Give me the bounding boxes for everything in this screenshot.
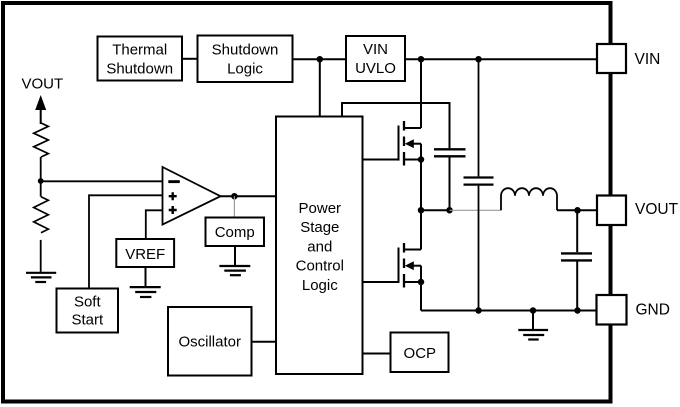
ground: power stage [518, 330, 548, 340]
ground: Comp [219, 266, 250, 275]
pin: VOUT [597, 196, 626, 226]
ground: feedback divider [26, 273, 56, 282]
wire: VIN junction down to input cap [478, 59, 480, 176]
wire: VIN UVLO to VIN pin [405, 58, 597, 60]
wire: soft start to op-amp + input [89, 195, 163, 288]
wire: Shutdown Logic output to VIN UVLO [293, 58, 347, 60]
svg-text:Logic: Logic [302, 277, 338, 294]
svg-text:Logic: Logic [227, 60, 263, 77]
box: OCP [391, 333, 449, 373]
wire: feedback node to op-amp inverting input [41, 180, 163, 182]
node: ground symbol junction [530, 307, 537, 314]
box: Shutdown Logic [198, 36, 293, 83]
svg-text:Start: Start [71, 311, 104, 328]
node: input cap ground junction [475, 307, 482, 314]
svg-text:UVLO: UVLO [355, 60, 396, 77]
box: Oscillator [168, 307, 252, 376]
wire: op-amp output to Power Stage [221, 195, 277, 197]
box: VREF [116, 239, 174, 267]
svg-text:VREF: VREF [125, 246, 165, 263]
box: Comp [206, 218, 265, 247]
node: shutdown/powerstage junction [317, 56, 324, 63]
arrow up to VOUT [35, 95, 46, 110]
wire: switch node horizontal [421, 209, 450, 211]
wire: bootstrap from Power Stage top [342, 103, 450, 148]
pin: VIN [597, 44, 626, 73]
resistor R2 (lower feedback) [34, 197, 49, 233]
node: output cap ground junction [574, 307, 581, 314]
svg-text:VOUT: VOUT [22, 76, 64, 93]
wire: inductor to VOUT pin [557, 209, 597, 211]
wire: VREF to op-amp + input [146, 210, 163, 239]
svg-text:Shutdown: Shutdown [106, 60, 173, 77]
svg-text:Soft: Soft [74, 293, 102, 310]
svg-text:OCP: OCP [404, 345, 437, 362]
wire: Power Stage to OCP [363, 353, 392, 355]
pin: GND [597, 295, 627, 325]
wire: rail to power ground [532, 311, 534, 330]
wire: Oscillator to Power Stage [252, 341, 277, 343]
wire: junction down to Power Stage top [319, 59, 321, 116]
box: Thermal Shutdown [98, 37, 183, 81]
capacitor: bootstrap [434, 149, 466, 156]
node: VOUT/output-cap junction [574, 207, 581, 214]
svg-text:Power: Power [299, 200, 342, 217]
svg-text:Stage: Stage [300, 219, 339, 236]
wire: R1 to feedback node [40, 157, 42, 197]
svg-text:VIN: VIN [635, 51, 661, 68]
wire: VREF to ground [145, 267, 147, 287]
svg-text:Comp: Comp [215, 224, 255, 241]
svg-text:Oscillator: Oscillator [178, 334, 241, 351]
resistor R1 (upper feedback) [34, 123, 49, 157]
svg-text:VOUT: VOUT [635, 201, 679, 218]
wire: bootstrap cap to switch node [449, 157, 451, 210]
wire: junction down to Comp (thin) [233, 196, 235, 217]
wire: ground rail [421, 310, 597, 312]
capacitor: input [464, 178, 494, 185]
node: VIN/drain junction [418, 56, 425, 63]
node: switch/bootstrap junction [446, 207, 453, 214]
transistor: high-side MOSFET [363, 121, 424, 166]
transistor: low-side MOSFET [363, 243, 424, 288]
wire: high-side source to low-side drain (switch node) [420, 160, 422, 250]
wire: VIN junction down to high-side drain [420, 59, 422, 128]
svg-text:VIN: VIN [363, 41, 388, 58]
box: Soft Start [57, 289, 119, 333]
wire: input cap to ground rail [478, 186, 480, 311]
capacitor: output [561, 253, 592, 260]
node: switch node at FET leg [418, 207, 425, 214]
wire: low-side source to ground rail [420, 282, 422, 311]
wire: switch node to inductor (thin) [450, 209, 502, 211]
svg-text:Control: Control [296, 258, 344, 275]
node: VIN/input-cap junction [475, 56, 482, 63]
wire: output cap to ground rail [576, 262, 578, 311]
wire: R2 to ground [40, 240, 42, 272]
wire: Thermal Shutdown to Shutdown Logic [182, 58, 198, 60]
ground: VREF [130, 287, 161, 297]
svg-text:and: and [307, 238, 332, 255]
inductor L1 [501, 188, 557, 210]
box: VIN UVLO [346, 36, 405, 81]
svg-text:GND: GND [636, 302, 670, 319]
op-amp error amplifier [163, 167, 221, 225]
wire: VOUT junction down to output cap [576, 210, 578, 252]
node: feedback divider junction [38, 178, 44, 184]
svg-text:Thermal: Thermal [112, 41, 167, 58]
wire: Comp to ground [234, 246, 236, 266]
node: op-amp output junction [231, 193, 238, 200]
box: Power Stage and Control Logic [276, 117, 363, 375]
svg-text:Shutdown: Shutdown [212, 41, 279, 58]
